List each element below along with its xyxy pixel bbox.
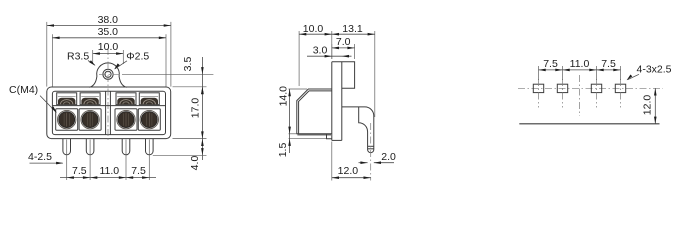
svg-text:11.0: 11.0 bbox=[570, 58, 590, 70]
dimension 4.0 (right) bbox=[153, 139, 207, 171]
svg-text:17.0: 17.0 bbox=[189, 98, 201, 119]
dimension 10.0 (side) bbox=[299, 23, 332, 86]
center channel bbox=[106, 91, 111, 134]
pin 2 front bbox=[86, 139, 94, 155]
pin 1 front bbox=[63, 139, 71, 155]
svg-text:R3.5: R3.5 bbox=[67, 51, 89, 63]
dimension 1.5 (side bottom-left) bbox=[277, 134, 326, 158]
svg-text:4-3x2.5: 4-3x2.5 bbox=[637, 63, 672, 75]
side body outline bbox=[297, 89, 332, 135]
body inner rim bbox=[52, 91, 165, 134]
wire window 1 bbox=[57, 93, 77, 105]
svg-text:4-2.5: 4-2.5 bbox=[28, 151, 52, 163]
dimension 3.5 (right) bbox=[173, 57, 207, 98]
svg-text:7.5: 7.5 bbox=[601, 58, 616, 70]
label C(M4) bbox=[9, 84, 57, 113]
side tab (hole boss) bbox=[332, 62, 355, 89]
svg-text:4.0: 4.0 bbox=[189, 156, 201, 171]
dimension 12.0 (footprint) bbox=[641, 88, 656, 124]
svg-text:35.0: 35.0 bbox=[98, 26, 119, 38]
wire window 2 bbox=[80, 93, 100, 105]
horizontal centerline bbox=[99, 73, 213, 75]
svg-text:7.5: 7.5 bbox=[72, 165, 87, 177]
pad row centerline bbox=[518, 87, 663, 89]
svg-text:12.0: 12.0 bbox=[338, 165, 359, 177]
dimension 2.0 (pin) bbox=[359, 151, 397, 164]
svg-text:14.0: 14.0 bbox=[277, 86, 289, 107]
svg-text:11.0: 11.0 bbox=[99, 165, 119, 177]
dimension 35.0 bbox=[52, 26, 166, 87]
svg-text:1.5: 1.5 bbox=[277, 143, 289, 158]
svg-text:38.0: 38.0 bbox=[98, 14, 119, 26]
svg-text:3.0: 3.0 bbox=[313, 44, 328, 56]
pin centerline (side) bbox=[370, 123, 372, 181]
svg-text:7.0: 7.0 bbox=[336, 36, 351, 48]
dimension 3.0 (flange thickness) bbox=[307, 44, 352, 57]
svg-text:3.5: 3.5 bbox=[182, 57, 194, 72]
screw cell 3 bbox=[115, 109, 137, 131]
pin 3 front bbox=[122, 139, 130, 155]
pin 4 front bbox=[146, 139, 154, 155]
side pin (bent leg) bbox=[342, 107, 374, 153]
vertical centerline bbox=[107, 48, 109, 143]
wire window 4 bbox=[139, 93, 159, 105]
screw cell 4 bbox=[138, 109, 160, 131]
symmetry centerline bbox=[579, 75, 581, 116]
side foot bbox=[327, 134, 332, 139]
label R3.5 bbox=[67, 51, 96, 66]
screw cell 2 bbox=[79, 109, 101, 131]
board edge line bbox=[519, 123, 659, 125]
pad 3 bbox=[591, 79, 601, 108]
screw cell 1 bbox=[56, 109, 78, 131]
dimension 7.0 (side tab) bbox=[332, 36, 355, 59]
svg-text:Φ2.5: Φ2.5 bbox=[126, 51, 149, 63]
svg-text:12.0: 12.0 bbox=[641, 95, 653, 116]
dimension 38.0 bbox=[47, 14, 171, 87]
svg-text:10.0: 10.0 bbox=[303, 23, 324, 35]
svg-text:2.0: 2.0 bbox=[381, 151, 396, 163]
mounting tab bbox=[89, 63, 126, 87]
svg-text:7.5: 7.5 bbox=[543, 58, 558, 70]
label 4-3x2.5 bbox=[627, 63, 672, 80]
dimension 10.0 (tab width) bbox=[93, 41, 124, 64]
tab hole outer bbox=[103, 69, 113, 79]
svg-text:7.5: 7.5 bbox=[131, 165, 146, 177]
pad 4 bbox=[615, 79, 625, 108]
svg-text:10.0: 10.0 bbox=[98, 41, 119, 53]
body outer bbox=[47, 87, 171, 139]
pad 1 bbox=[533, 79, 543, 108]
dimension 7.5 / 11.0 / 7.5 (bottom) bbox=[60, 165, 156, 179]
footprint dims 7.5 / 11.0 / 7.5 bbox=[539, 58, 621, 80]
dimension 17.0 (right) bbox=[173, 87, 207, 160]
horizontal separator bbox=[52, 105, 166, 107]
dimension 12.0 (side bottom) bbox=[332, 142, 371, 181]
pin centerline extensions bbox=[67, 140, 150, 181]
side flange plate bbox=[332, 62, 342, 141]
tab hole inner bbox=[105, 71, 111, 77]
wire window 3 bbox=[116, 93, 136, 105]
pad 2 bbox=[557, 79, 567, 108]
svg-text:C(M4): C(M4) bbox=[9, 84, 38, 96]
label 4-2.5 bbox=[28, 151, 63, 164]
dimension 14.0 (side left) bbox=[277, 86, 307, 134]
svg-text:13.1: 13.1 bbox=[342, 23, 363, 35]
dimension 13.1 (side) bbox=[332, 23, 375, 117]
label phi2.5 bbox=[114, 51, 149, 70]
